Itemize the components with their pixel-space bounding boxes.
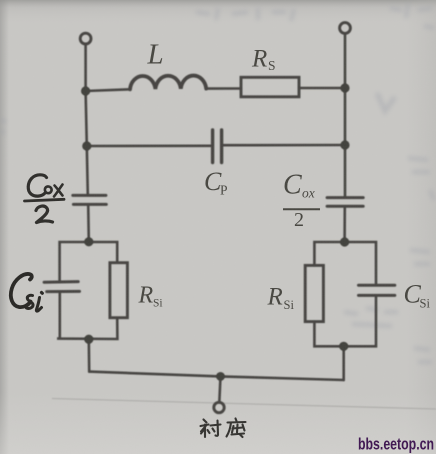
label RSi right [267, 284, 295, 313]
handwritten label Cox/2 left [25, 175, 65, 223]
wire top-left stub [84, 44, 87, 91]
wire top-right stub [344, 34, 347, 88]
right RC loop wires [314, 242, 376, 346]
watermark bbs.eetop.cn [358, 435, 434, 454]
node: substrate [216, 372, 225, 381]
wire Cp to node right [223, 144, 345, 147]
label CP [204, 167, 228, 198]
resistor RSi left body [110, 263, 128, 318]
wire inductor to Rs [206, 87, 241, 90]
capacitor CSi right plates [359, 285, 395, 295]
inductor L [130, 76, 206, 90]
node: left Cp junction [82, 141, 91, 150]
capacitor CP plates [213, 130, 222, 163]
capacitor CSi left plates [44, 282, 79, 292]
node: right Rs junction [340, 83, 349, 92]
wire Cox/2 left to loop [87, 204, 90, 241]
node: right loop top [340, 237, 349, 246]
capacitor Cox/2 right plates [327, 198, 363, 207]
wire right vertical node2-node3 [344, 88, 347, 145]
wire right vertical to Cox/2 right [344, 145, 347, 197]
handwritten label CSi left [11, 274, 42, 311]
label RS [251, 46, 276, 74]
wire left vertical upper [86, 91, 87, 146]
node: left loop bottom [84, 335, 93, 344]
resistor RS body [241, 77, 299, 97]
label substrate (Chinese characters drawn as strokes) [201, 419, 246, 438]
left RC loop wires [57, 242, 117, 339]
bottom rail [89, 372, 344, 380]
faint page crease line [52, 399, 436, 410]
wire node1 to inductor [86, 89, 130, 91]
resistor RSi right body [305, 265, 323, 321]
label CSi right [404, 280, 431, 311]
terminal port 1 (top left) [80, 33, 91, 44]
faint bleed-through ghosts (decorative) [0, 4, 434, 362]
wire right loop drop [342, 346, 345, 380]
wire Cox/2 right to loop [343, 206, 346, 242]
label L [147, 38, 164, 70]
node: left top junction [81, 86, 90, 95]
wire Rs to node2 [299, 87, 345, 90]
node: right Cp junction [340, 140, 349, 149]
capacitor Cox/2 left plates [73, 195, 107, 204]
paper grain [0, 0, 1, 1]
label Cox/2 right (printed fraction) [283, 170, 320, 232]
substrate stub [219, 376, 220, 402]
node: left loop top [84, 237, 93, 246]
wire node Cp-left to Cp [87, 145, 211, 148]
terminal port 2 (top right) [340, 23, 351, 34]
label RSi left [138, 283, 163, 310]
wire left vertical to Cox/2 left [87, 146, 88, 195]
wire left loop drop [88, 339, 91, 371]
node: right loop bottom [339, 342, 348, 351]
substrate terminal [214, 402, 224, 412]
